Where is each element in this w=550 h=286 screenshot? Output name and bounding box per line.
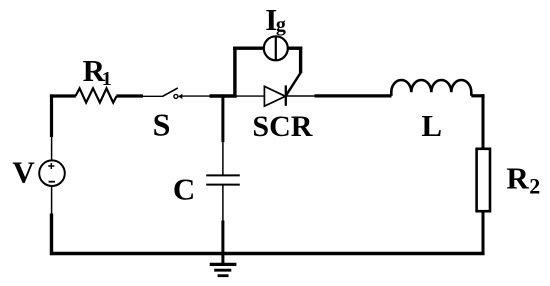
wire left rail bottom thick segment <box>50 214 53 256</box>
wire gate loop right vertical <box>299 47 302 73</box>
wire thick from SCR to inductor <box>315 94 392 97</box>
ground <box>210 254 237 276</box>
wire right rail upper <box>482 94 485 149</box>
wire right rail lower <box>482 211 485 253</box>
switch S <box>162 88 182 99</box>
wire inductor to top-right corner <box>471 94 484 97</box>
wire thin from switch to SCR anode <box>181 95 265 97</box>
wire thin from SCR cathode <box>286 95 316 97</box>
wire between R1 and switch thick part <box>116 94 143 97</box>
wire capacitor branch thick upper <box>221 94 224 142</box>
svg-text:R: R <box>506 161 529 196</box>
svg-text:2: 2 <box>529 174 540 199</box>
wire capacitor branch thin upper <box>222 142 224 176</box>
label R2 <box>506 161 540 199</box>
wire left rail thin above source <box>51 137 53 161</box>
wire capacitor branch thick lower <box>221 221 224 256</box>
inductor L <box>391 80 471 96</box>
label R1 <box>83 53 112 90</box>
wire gate diagonal to SCR <box>286 72 301 96</box>
wire left rail thin below source <box>51 186 53 214</box>
svg-text:C: C <box>173 171 195 206</box>
wire bottom rail <box>50 252 485 255</box>
wire left rail top thick segment <box>50 94 53 137</box>
wire gate loop left vertical <box>233 47 236 98</box>
label Ig <box>265 2 286 37</box>
current source Ig <box>264 36 288 60</box>
svg-text:SCR: SCR <box>252 110 312 143</box>
wire top-left from corner to R1 <box>50 94 76 97</box>
wire gate loop top-right horizontal <box>287 47 302 50</box>
wire gate loop top-left horizontal <box>233 47 264 50</box>
wire thin lead to switch blade <box>143 95 162 97</box>
svg-text:L: L <box>421 108 442 143</box>
svg-text:1: 1 <box>102 68 112 90</box>
voltage source V <box>39 160 65 186</box>
svg-text:S: S <box>153 107 171 143</box>
capacitor C <box>206 175 240 184</box>
resistor R1 <box>76 88 117 102</box>
wire capacitor branch thin lower <box>222 185 224 221</box>
wire thick junction bar at capacitor node <box>210 94 237 97</box>
thyristor SCR <box>264 85 285 106</box>
resistor R2 <box>477 149 490 211</box>
svg-text:g: g <box>276 14 286 36</box>
svg-text:V: V <box>12 154 35 189</box>
